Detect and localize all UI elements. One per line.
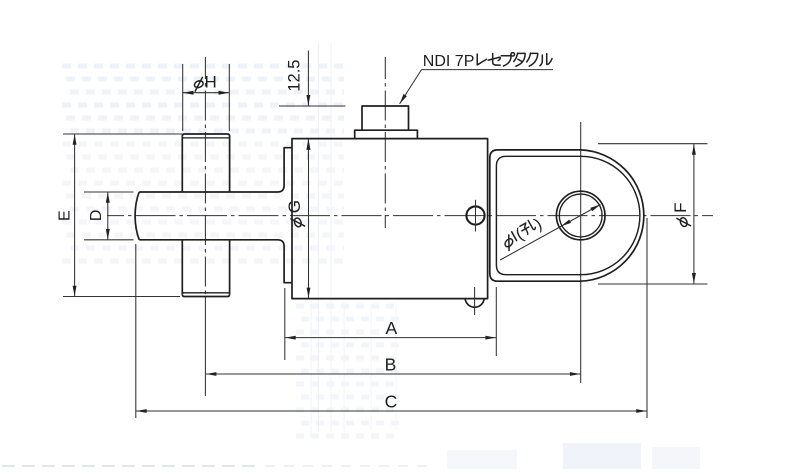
svg-text:H: H [205,73,217,92]
connector/body vertical centerline [384,57,386,228]
dimension B line [206,373,581,375]
horizontal axis centerline [107,215,713,217]
svg-text:): ) [531,215,545,233]
svg-text:A: A [386,318,398,338]
label phiG [285,200,305,228]
phiI diameter leader line [500,205,600,261]
main body [292,139,488,299]
connector base [355,130,418,138]
svg-text:NDI 7P: NDI 7P [423,53,475,70]
dimension 12.5 lines [307,51,309,106]
svg-text:B: B [385,354,397,374]
eye plate outer contour [490,150,644,281]
dimension phiF line [693,144,695,284]
shaft upper profile with boss fillet [139,148,292,192]
svg-text:G: G [285,200,304,213]
svg-text:C: C [385,391,398,411]
flange vertical centerline (B extension) [204,57,206,296]
svg-text:D: D [88,210,105,222]
dimension phiH line [183,92,230,94]
label phiF [671,203,691,228]
side screw circle on body [466,206,484,224]
extension lines [63,64,708,418]
svg-text:F: F [671,203,690,213]
connector upper block [362,106,409,130]
eye hole outer circle [556,191,605,240]
shaft lower profile with boss fillet [139,240,292,283]
dimension phiG line [308,139,310,298]
dimension D line [107,192,109,240]
shaft domed left end [135,192,139,240]
eye plate inner contour [496,156,639,274]
label phiI (hole) rotated [499,215,546,252]
svg-text:12.5: 12.5 [286,60,304,92]
eye-hole vertical centerline (B extension) [580,122,582,383]
label phiH [193,77,204,92]
NDI receptacle leader [400,70,553,104]
dimension A line [285,337,496,339]
dimension E line [74,134,76,297]
bottom pin half-circle [465,299,484,308]
dimension C line [136,410,647,412]
flange (vertical cylinder) [185,134,230,192]
svg-text:E: E [57,210,74,221]
flange chamfer lines [183,137,229,139]
eye hole chamfer circle [559,194,602,237]
faint page bleed-through background [2,42,700,469]
